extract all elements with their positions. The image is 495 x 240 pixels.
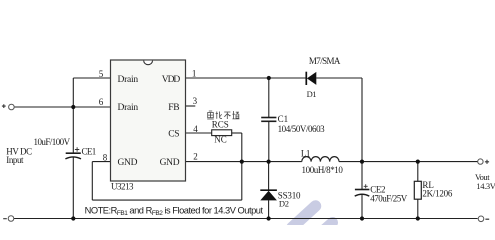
svg-text:M7/SMA: M7/SMA xyxy=(309,56,341,66)
node dot rail CE2 xyxy=(360,216,364,220)
capacitor CE2 xyxy=(355,184,370,196)
input terminal plus xyxy=(2,104,6,108)
wire D2 top xyxy=(268,162,270,190)
wire pin4 CS to RCS xyxy=(186,132,212,134)
input terminal circle + xyxy=(9,104,15,110)
resistor RL xyxy=(414,181,421,199)
svg-text:NC: NC xyxy=(214,135,227,145)
capacitor C1 xyxy=(261,118,276,122)
svg-text:GND: GND xyxy=(160,158,180,168)
wire D1 to corner xyxy=(316,77,362,79)
svg-text:Drain: Drain xyxy=(118,103,139,113)
wire D2 bottom xyxy=(268,200,270,218)
node dot VDD C1 xyxy=(267,76,271,80)
output terminal minus xyxy=(485,218,489,220)
node dot input junction xyxy=(71,105,75,109)
svg-text:Input: Input xyxy=(6,155,24,165)
svg-text:104/50V/0603: 104/50V/0603 xyxy=(278,124,326,134)
svg-text:D2: D2 xyxy=(279,198,289,208)
svg-text:6: 6 xyxy=(99,97,104,107)
svg-text:CE1: CE1 xyxy=(82,147,96,157)
watermark band 2 xyxy=(325,223,333,230)
input terminal circle - xyxy=(8,216,14,222)
resistor RCS xyxy=(212,130,232,136)
op-amp U1 IC body U3213 xyxy=(111,60,186,181)
svg-text:4: 4 xyxy=(193,124,198,134)
wire vertical x241.8 down to node line xyxy=(241,133,243,162)
output terminal circle - xyxy=(478,216,484,222)
wire input + line xyxy=(14,106,110,108)
svg-text:1: 1 xyxy=(192,69,197,79)
wire pin5 horizontal xyxy=(73,77,110,79)
svg-text:GND: GND xyxy=(118,158,138,168)
node dot rail RL xyxy=(416,216,420,220)
wire RCS to corner xyxy=(232,132,242,134)
node dot rail CE1 xyxy=(71,216,75,220)
diode D2 xyxy=(260,190,277,200)
svg-text:100uH/8*10: 100uH/8*10 xyxy=(302,165,344,175)
svg-text:5: 5 xyxy=(99,69,104,79)
wire pin8 down xyxy=(91,162,93,201)
wire bottom rail xyxy=(14,218,478,220)
inductor L1 xyxy=(302,157,339,162)
input terminal minus xyxy=(3,218,7,220)
svg-text:NOTE:RFB1 and RFB2 is Floated: NOTE:RFB1 and RFB2 is Floated for 14.3V … xyxy=(85,205,264,217)
wire RL top xyxy=(417,162,419,182)
wire C1 top branch xyxy=(268,78,270,117)
svg-text:2K/1206: 2K/1206 xyxy=(422,188,453,198)
wire vertical x73 CE1 to rail xyxy=(72,157,74,218)
wire vertical x73 input line to CE1 xyxy=(72,107,74,153)
wire CE2 bottom xyxy=(361,195,363,219)
node dot RL top xyxy=(416,160,420,164)
watermark band 1 xyxy=(292,206,316,228)
svg-text:Drain: Drain xyxy=(118,75,139,85)
wire pin3 FB stub xyxy=(186,105,196,107)
svg-text:10uF/100V: 10uF/100V xyxy=(34,137,71,147)
svg-text:8: 8 xyxy=(103,152,108,162)
wire U right up xyxy=(241,162,243,201)
svg-text:RCS: RCS xyxy=(212,120,229,130)
output terminal circle + xyxy=(478,159,483,164)
wire node line IC to L1 xyxy=(186,161,302,163)
wire pin1 VDD to D1 xyxy=(186,77,307,79)
svg-text:VDD: VDD xyxy=(162,75,181,85)
node dot rail D2 xyxy=(267,216,271,220)
wire node line L1 to output terminal xyxy=(339,161,478,163)
capacitor CE1 xyxy=(65,147,81,159)
wire pin8 GND stub xyxy=(92,161,110,163)
svg-text:L1: L1 xyxy=(301,149,310,159)
wire CE2 top xyxy=(361,162,363,190)
wire U bottom xyxy=(92,199,242,201)
node dot L1 out CE2 xyxy=(360,160,364,164)
svg-text:C1: C1 xyxy=(278,114,289,124)
wire C1 bottom branch xyxy=(268,122,270,162)
output terminal plus xyxy=(485,160,489,164)
svg-text:D1: D1 xyxy=(307,89,317,99)
diode D1 xyxy=(306,72,316,85)
svg-text:470uF/25V: 470uF/25V xyxy=(370,193,408,203)
svg-text:3: 3 xyxy=(193,96,198,106)
label mo ren bu tie (CJK drawn) xyxy=(207,111,239,119)
svg-text:CS: CS xyxy=(168,130,179,140)
svg-text:14.3V: 14.3V xyxy=(476,181,495,191)
node dot RCS node xyxy=(240,160,244,164)
node dot C1 D2 node xyxy=(267,160,271,164)
svg-text:U3213: U3213 xyxy=(111,182,134,192)
wire RL bottom xyxy=(417,199,419,218)
svg-text:2: 2 xyxy=(193,152,198,162)
wire vertical x73 pin5 to input line xyxy=(72,78,74,107)
svg-text:FB: FB xyxy=(168,103,179,113)
wire vertical x362 top xyxy=(361,78,363,162)
